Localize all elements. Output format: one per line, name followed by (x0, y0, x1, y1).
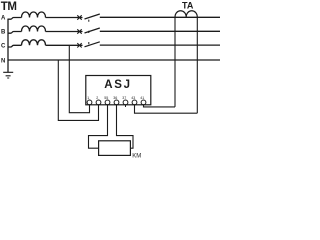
svg-text:2: 2 (96, 96, 98, 100)
wire terminal 3 down to KM left (89, 105, 108, 148)
wire line B left (8, 32, 22, 34)
terminal 1 (87, 100, 92, 105)
TM coil phase B (22, 26, 46, 31)
left bus vertical (7, 19, 9, 73)
breaker X phase B (77, 29, 81, 33)
breaker X phase C (77, 43, 81, 47)
svg-text:36: 36 (113, 96, 117, 100)
TA secondary lead right (196, 17, 198, 113)
svg-text:ASJ: ASJ (104, 79, 131, 91)
switch blade phase C (85, 42, 100, 47)
TM coil phase A (22, 12, 46, 17)
wire line B right (100, 30, 220, 32)
svg-text:A: A (1, 16, 6, 22)
terminal 7 (141, 100, 146, 105)
wire line C right (100, 44, 220, 46)
switch linkage dashes (88, 20, 90, 45)
svg-text:43: 43 (131, 96, 135, 100)
wire C-phase tap to ASJ terminal 1 (69, 45, 89, 112)
terminal 6 (132, 100, 137, 105)
svg-text:C: C (1, 44, 6, 50)
svg-text:37: 37 (122, 96, 126, 100)
wire line B middle (46, 31, 83, 33)
wire terminal 6 to TA right lead (135, 105, 198, 113)
wire terminal 4 down to KM right (117, 105, 134, 148)
svg-text:TM: TM (1, 1, 17, 13)
current transformer TA winding (175, 11, 197, 18)
svg-text:41: 41 (140, 96, 144, 100)
wire line A left (8, 18, 22, 20)
wire line C middle (46, 44, 83, 46)
terminal 5 (123, 100, 128, 105)
svg-text:TA: TA (182, 1, 194, 11)
wire line N (8, 59, 220, 61)
relay ASJ box (86, 76, 151, 105)
wire terminal 7 to TA left lead (144, 105, 176, 107)
terminal 3 (105, 100, 110, 105)
wire line A right (100, 16, 220, 18)
terminal 4 (114, 100, 119, 105)
ground (3, 72, 13, 78)
svg-text:1: 1 (87, 96, 89, 100)
TA secondary lead left (174, 17, 176, 107)
wire line A middle (46, 17, 83, 19)
terminal 2 (96, 100, 101, 105)
breaker X phase A (77, 15, 81, 19)
svg-text:55: 55 (104, 96, 108, 100)
svg-text:B: B (1, 30, 6, 36)
svg-text:N: N (1, 58, 5, 64)
wire line C left (8, 45, 22, 47)
contactor coil KM box (99, 141, 131, 156)
wire N tap to ASJ terminal 2 (58, 60, 98, 120)
switch blade phase B (85, 28, 100, 33)
svg-text:KM: KM (132, 153, 141, 159)
TM coil phase C (22, 40, 46, 45)
switch blade phase A (85, 14, 100, 19)
